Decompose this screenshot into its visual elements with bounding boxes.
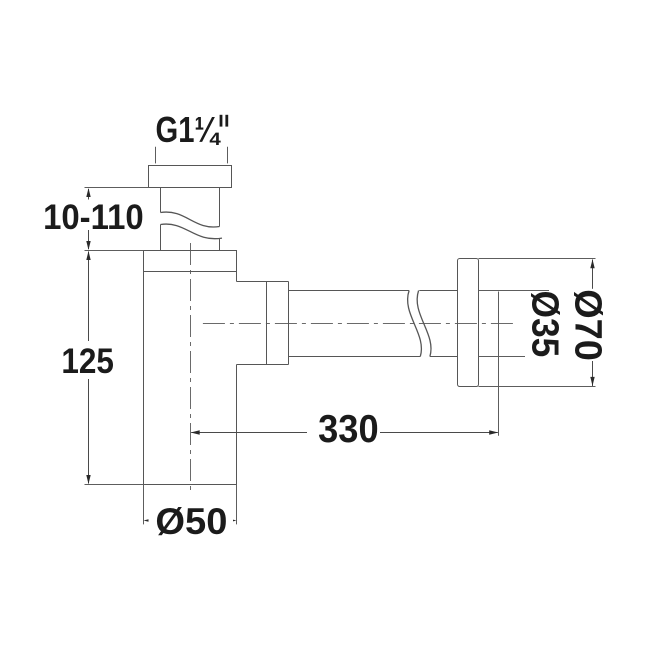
label G1 1/4 inch [156,110,229,151]
outlet pipe bottom edge [289,356,458,358]
label 10-110 [43,198,144,237]
inlet pipe break line lower [161,224,223,239]
thread leader line right [227,147,229,164]
330 arrow left [191,430,200,434]
flange bottom extension line to 10-110 dimension [85,187,149,189]
svg-text:Ø50: Ø50 [155,501,227,542]
dia50 extension line right [236,485,238,525]
330 dimension line [191,432,498,434]
label dia50 [155,501,227,542]
body bottom extension line to left dimensions [85,484,144,486]
svg-text:Ø70: Ø70 [567,289,609,361]
text mask 10-110 [43,200,145,231]
dia50 extension line left [143,485,145,525]
outlet shoulder top line [237,281,289,283]
10-110 arrow up [86,188,90,197]
dia70 arrow up [590,259,594,268]
outlet pipe break line right [417,291,431,357]
dia70 dimension line [592,260,594,387]
330 extension line right [498,292,500,436]
125 arrow down [86,475,90,484]
wall flange [458,259,479,387]
wall pipe spigot top edge / dia35 extension top [479,290,550,292]
svg-text:G1¼: G1¼ [156,110,221,151]
wall pipe spigot bottom edge / dia35 extension bottom [479,356,526,358]
outlet shoulder bottom line [237,364,289,366]
trap body collar joint line [144,271,237,273]
collar top extension line to left dimensions [85,250,144,252]
horizontal centerline of outlet pipe [203,323,516,325]
330 arrow right [489,430,498,434]
dia70 extension line top [479,258,596,260]
svg-text:10-110: 10-110 [43,198,144,237]
svg-text:Ø35: Ø35 [524,291,566,358]
outlet pipe top edge [289,290,458,292]
label 125 [61,343,114,382]
inlet pipe break line upper [161,212,220,227]
125 dimension line [88,252,90,484]
top inlet flange [149,166,232,188]
trap body [144,251,237,485]
outlet pipe break line left [408,291,422,357]
125 arrow up [86,251,90,260]
text mask dia70 [572,289,605,361]
label 330 [318,407,378,450]
thread leader line left [155,147,157,164]
dia70 extension line bottom [479,386,596,388]
outlet nut left edge [266,282,268,365]
dia50 arrow left [144,518,153,522]
text mask 330 [307,410,380,445]
dia50 arrow right [228,518,237,522]
dia70 arrow down [590,377,594,386]
outlet nut right edge [288,282,290,365]
svg-text:330: 330 [318,407,378,450]
inlet pipe right edge [219,188,221,251]
inlet pipe left edge [160,188,162,251]
text mask dia50 [149,503,234,538]
text mask 125 [60,341,114,379]
vertical centerline of trap body [190,243,192,492]
svg-text:125: 125 [61,343,114,382]
label dia35 rotated [524,291,566,358]
10-110 dimension line [88,189,90,249]
label dia70 rotated [567,289,609,361]
10-110 arrow down [86,241,90,250]
